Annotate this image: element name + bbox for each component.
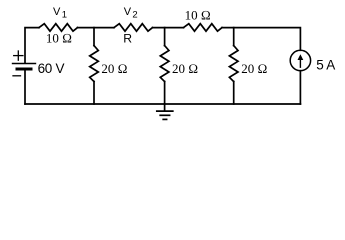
current source I1 circle bbox=[290, 50, 310, 70]
svg-text:20 Ω: 20 Ω bbox=[172, 61, 198, 76]
svg-text:V: V bbox=[124, 6, 132, 18]
resistor R4 (20 ohm, vertical left) bbox=[90, 46, 99, 82]
wire top-left: battery top plate up to corner and right to R V1 bbox=[25, 28, 39, 63]
svg-text:5 A: 5 A bbox=[316, 57, 335, 72]
wire battery bottom to bottom rail bbox=[24, 69, 26, 104]
wire R4 bottom to bottom rail bbox=[93, 82, 95, 105]
battery plus sign bbox=[14, 51, 23, 60]
resistor V1 (10 ohm, horizontal) bbox=[39, 24, 78, 32]
svg-text:1: 1 bbox=[62, 10, 67, 21]
svg-text:10 Ω: 10 Ω bbox=[185, 8, 211, 23]
wire from current source bottom to bottom-right corner bbox=[299, 71, 301, 104]
ground stem bbox=[164, 104, 166, 111]
wire R6 bottom to bottom rail bbox=[233, 82, 235, 105]
wire bottom rail bbox=[25, 103, 300, 105]
resistor R6 (20 ohm, vertical right) bbox=[229, 46, 238, 82]
svg-text:V: V bbox=[53, 6, 61, 18]
svg-text:2: 2 bbox=[132, 10, 137, 21]
resistor R5 (20 ohm, vertical middle) bbox=[160, 46, 169, 82]
node C vertical stub bbox=[233, 28, 235, 46]
ground bar 3 bbox=[163, 118, 166, 120]
svg-text:20 Ω: 20 Ω bbox=[241, 61, 267, 76]
resistor R3 (10 ohm, horizontal top-right) bbox=[184, 24, 223, 32]
svg-text:20 Ω: 20 Ω bbox=[101, 61, 127, 76]
wire from V2 to R3 (through node B) bbox=[153, 27, 184, 29]
battery V source short plate bbox=[17, 68, 31, 71]
battery V source long plate bbox=[13, 63, 36, 65]
ground bar 1 bbox=[157, 110, 173, 112]
node B vertical stub bbox=[164, 28, 166, 46]
wire from V1 to R V2 (through node A) bbox=[78, 27, 115, 29]
resistor V2 (R, horizontal) bbox=[114, 24, 153, 32]
current source arrow (up) bbox=[299, 57, 301, 67]
battery minus sign bbox=[13, 75, 21, 77]
wire from R3 to top-right corner and down to current source bbox=[222, 28, 300, 51]
svg-text:10 Ω: 10 Ω bbox=[46, 30, 72, 45]
svg-text:60 V: 60 V bbox=[38, 61, 65, 76]
wire R5 bottom to bottom rail bbox=[164, 82, 166, 105]
ground bar 2 bbox=[160, 114, 169, 116]
svg-text:R: R bbox=[123, 32, 132, 46]
node A vertical stub bbox=[93, 28, 95, 46]
current source arrowhead bbox=[298, 54, 304, 60]
